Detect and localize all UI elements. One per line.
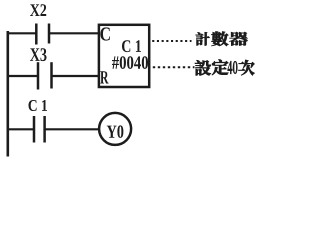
label 數: [212, 31, 229, 46]
left power rail: [7, 31, 10, 157]
label X3: [30, 48, 47, 61]
contact X3 (normally-open): [37, 62, 40, 89]
label 器: [229, 32, 247, 46]
label 40: [228, 61, 238, 73]
pin label R (reset input): [100, 71, 108, 83]
dashed leader to preset label: [153, 66, 195, 68]
PLC ladder diagram: X2/X3 drive counter C1 (#0040); C1 contact drives output coil Y0: [0, 0, 256, 159]
wire rung2 right segment (X3 to counter R input): [52, 75, 99, 77]
counter preset value #0040: [112, 56, 148, 69]
label 次: [238, 60, 254, 75]
label X2: [30, 4, 46, 16]
label 設 (of 設定40次 = set 40 times): [195, 60, 211, 75]
dashed leader to counter label: [152, 40, 191, 42]
contact X2 (normally-open): [35, 24, 38, 45]
counter block C1: [99, 25, 149, 87]
wire rung3 right segment (C1 contact to Y0 coil): [45, 128, 99, 130]
label 定: [212, 60, 228, 75]
wire rung3 left segment (rail to C1 contact): [7, 128, 35, 130]
label Y0: [107, 125, 124, 137]
pin label C (count input): [100, 27, 109, 40]
contact C1 (counter output, normally-open): [33, 116, 36, 143]
output coil Y0: [99, 113, 131, 145]
wire rung1 left segment (rail to X2 contact): [7, 32, 37, 34]
label C 1: [28, 100, 47, 111]
counter designator C1: [122, 40, 141, 52]
label 計 (of 計數器 = counter): [196, 32, 210, 45]
wire rung1 right segment (X2 to counter C input): [49, 32, 99, 34]
wire rung2 left segment (rail to X3 contact): [7, 75, 39, 77]
